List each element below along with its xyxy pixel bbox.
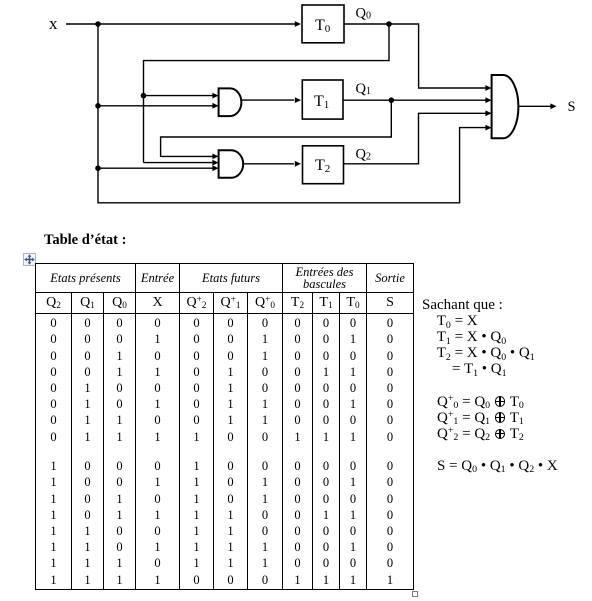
- svg-text:Q0: Q0: [356, 6, 371, 22]
- svg-text:Q2: Q2: [356, 146, 371, 162]
- svg-text:T2: T2: [315, 157, 330, 175]
- svg-text:x: x: [49, 14, 58, 33]
- svg-text:T0: T0: [315, 17, 331, 35]
- svg-text:T1: T1: [314, 93, 329, 111]
- svg-text:Q1: Q1: [356, 81, 371, 97]
- svg-text:S: S: [568, 99, 576, 115]
